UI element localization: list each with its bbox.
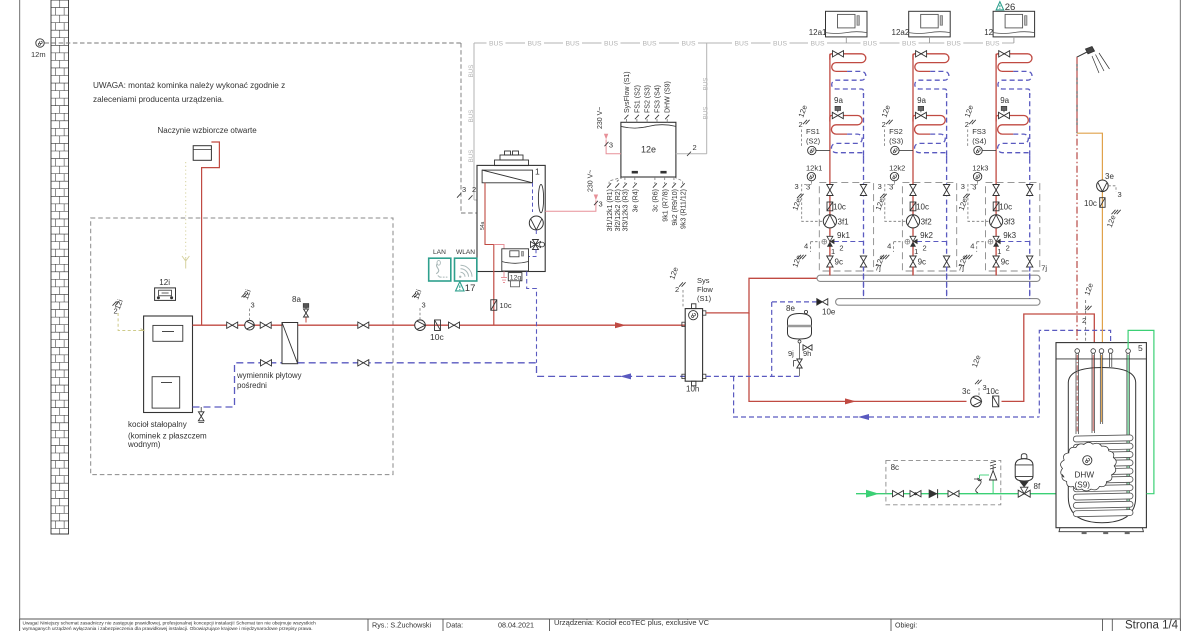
svg-text:3: 3 (609, 141, 613, 150)
cold water main (green) (856, 493, 1056, 495)
svg-text:230 V~: 230 V~ (597, 107, 604, 129)
cylinder base (1059, 528, 1143, 532)
svg-text:9a: 9a (1000, 96, 1009, 105)
svg-text:2: 2 (1006, 244, 1010, 253)
svg-text:3: 3 (251, 301, 255, 310)
plate heat exchanger (wymiennik plytowy) (282, 323, 298, 364)
svg-text:FS3: FS3 (972, 127, 986, 136)
wire 12i to boiler (pale dashed) (118, 313, 144, 330)
svg-text:9c: 9c (918, 258, 926, 267)
coil return from tank (blue) (1039, 330, 1110, 417)
svg-text:12i: 12i (159, 278, 170, 287)
svg-text:8f: 8f (1034, 482, 1041, 491)
internal pump (529, 216, 543, 230)
svg-text:BUS: BUS (528, 41, 542, 48)
circulation pipe (red dash-dot) (1076, 57, 1078, 349)
svg-text:2: 2 (675, 285, 679, 294)
mixing valve 9k3 (1000, 241, 1029, 243)
svg-text:3: 3 (961, 182, 965, 191)
pump group box (902, 182, 956, 271)
mixing valve 9k1 (834, 241, 864, 243)
svg-text:BUS: BUS (643, 41, 657, 48)
svg-text:1: 1 (831, 247, 835, 256)
svg-text:26: 26 (1005, 2, 1016, 13)
svg-text:BUS: BUS (566, 41, 580, 48)
svg-text:wodnym): wodnym) (127, 440, 161, 449)
dip tubes (1075, 353, 1077, 434)
svg-text:12k1: 12k1 (806, 164, 822, 173)
shut-off valves top (910, 185, 916, 191)
internal blue pipe (532, 183, 534, 212)
svg-text:230 V~: 230 V~ (588, 170, 595, 192)
safety group 8c (886, 460, 1001, 504)
BUS drop to ecoTEC (473, 43, 475, 200)
svg-text:Naczynie wzbiorcze otwarte: Naczynie wzbiorcze otwarte (158, 126, 258, 135)
BUS drop to control 12e (706, 43, 708, 154)
svg-text:8a: 8a (292, 295, 301, 304)
svg-text:BUS: BUS (703, 107, 710, 120)
DHW cylinder 5 (1056, 343, 1146, 528)
page frame (19, 0, 21, 619)
return from DHW tank (blue) (734, 376, 1040, 417)
svg-text:Rys.: S.Żuchowski: Rys.: S.Żuchowski (372, 621, 432, 630)
svg-text:(S1): (S1) (697, 294, 712, 303)
warning 17 (456, 282, 465, 291)
room controller 12a1 (826, 11, 868, 37)
svg-text:12: 12 (984, 28, 993, 37)
svg-text:10c: 10c (986, 387, 999, 396)
shut-off valve (227, 322, 233, 328)
wire to pump + labels 12i 3 (249, 308, 251, 320)
svg-text:SysFlow (S1): SysFlow (S1) (624, 71, 631, 113)
svg-text:FS1 (S2): FS1 (S2) (634, 85, 641, 113)
svg-text:10c: 10c (500, 301, 512, 310)
svg-text:4: 4 (804, 242, 808, 251)
svg-text:(S2): (S2) (806, 137, 821, 146)
svg-text:12k3: 12k3 (972, 164, 988, 173)
burner module (502, 249, 529, 271)
riser to manifolds (912, 267, 914, 276)
svg-text:10h: 10h (686, 385, 699, 394)
title block (19, 619, 21, 631)
internal expansion vessel (538, 184, 543, 212)
8f tee valve (1018, 490, 1024, 497)
svg-text:12a2: 12a2 (892, 28, 910, 37)
gas boiler ecoTEC (1) (477, 165, 545, 271)
shut-off valves top (993, 185, 999, 191)
svg-text:8e: 8e (786, 304, 795, 313)
radiator loop upper (913, 54, 949, 72)
svg-text:BUS: BUS (703, 78, 710, 91)
svg-text:3: 3 (795, 182, 799, 191)
svg-text:12e: 12e (641, 145, 656, 155)
svg-text:FS1: FS1 (806, 127, 820, 136)
condensate branch (pink) (494, 245, 504, 278)
radiator loop upper (996, 54, 1032, 72)
filter 10c (993, 396, 999, 407)
pump circuit solid fuel (245, 320, 255, 330)
svg-text:BUS: BUS (902, 41, 916, 48)
tank connections (1075, 349, 1080, 354)
circulation branch (orange) (1077, 133, 1102, 349)
svg-text:Data:: Data: (446, 621, 463, 630)
svg-text:3c (R6): 3c (R6) (653, 189, 660, 212)
svg-text:4: 4 (970, 242, 974, 251)
flue terminal (495, 160, 529, 166)
return valve left (261, 360, 267, 366)
sensor 12m (outdoor/flue sensor) (36, 39, 44, 47)
svg-text:9k3: 9k3 (1003, 231, 1016, 240)
supply riser red (912, 54, 914, 276)
svg-text:Sys: Sys (697, 276, 710, 285)
supply riser red (995, 54, 997, 276)
filter 10c (993, 202, 999, 211)
svg-text:5: 5 (1138, 343, 1143, 353)
open expansion vessel (193, 146, 211, 161)
wires 9k actuator (977, 241, 984, 243)
svg-text:8c: 8c (891, 463, 899, 472)
room controller 12 (993, 11, 1035, 37)
svg-text:Urządzenia: Kocioł ecoTEC plu: Urządzenia: Kocioł ecoTEC plus, exclusiv… (554, 618, 710, 627)
shower (1077, 52, 1088, 134)
svg-text:BUS: BUS (604, 41, 618, 48)
svg-text:3: 3 (462, 185, 466, 194)
return riser blue (946, 93, 948, 299)
pump group box (819, 182, 873, 271)
svg-text:12q: 12q (510, 274, 522, 281)
hydraulic separator 10h (685, 309, 702, 382)
svg-text:Obiegi:: Obiegi: (895, 623, 917, 630)
svg-text:10e: 10e (822, 308, 836, 317)
svg-text:54a: 54a (480, 221, 486, 230)
flow arrow supply (615, 322, 626, 328)
svg-text:3f1/12k1 (R1): 3f1/12k1 (R1) (607, 189, 614, 231)
wires 3e (1108, 186, 1116, 192)
svg-text:12k2: 12k2 (889, 164, 905, 173)
return riser blue (863, 93, 865, 299)
svg-text:3c: 3c (962, 387, 970, 396)
cold water to tank & up-over (green) (1128, 330, 1154, 493)
svg-text:WLAN: WLAN (456, 249, 475, 256)
svg-text:Strona 1/4: Strona 1/4 (1125, 620, 1179, 631)
svg-text:BUS: BUS (468, 150, 475, 163)
inner vessel (1068, 368, 1135, 523)
svg-text:wymiennik płytowy: wymiennik płytowy (236, 371, 302, 380)
svg-text:3f1: 3f1 (838, 218, 850, 227)
controller 12e (621, 122, 676, 177)
svg-text:2: 2 (965, 120, 969, 129)
radiator loop lower (9a mixing) (996, 116, 1028, 135)
svg-text:BUS: BUS (863, 41, 877, 48)
svg-text:3: 3 (889, 183, 893, 192)
wire 12m to ecoTEC (dashed) (45, 42, 462, 44)
radiator loop lower (9a mixing) (913, 116, 945, 135)
svg-text:3f3: 3f3 (1004, 218, 1016, 227)
svg-text:FS2 (S3): FS2 (S3) (645, 85, 652, 113)
sensor wire DHW (gray dashed) (1085, 300, 1087, 455)
svg-text:DHW (S9): DHW (S9) (665, 81, 672, 113)
svg-text:3e (R4): 3e (R4) (633, 189, 640, 212)
internal red pipe (485, 183, 494, 272)
warning 26 (996, 2, 1004, 10)
svg-text:DHW: DHW (1075, 471, 1095, 480)
mixing valve 9k2 (917, 241, 947, 243)
svg-text:08.04.2021: 08.04.2021 (498, 621, 534, 630)
svg-text:1: 1 (914, 247, 918, 256)
internal diverter valve (531, 242, 536, 248)
sensor cloud DHW (S9) (1061, 442, 1117, 491)
supply separator to manifold (706, 278, 817, 313)
svg-text:FS3 (S4): FS3 (S4) (655, 85, 662, 113)
svg-text:7j: 7j (1041, 264, 1047, 273)
shut-off valve 9c (827, 256, 833, 262)
svg-text:1: 1 (535, 167, 540, 177)
12e sensor inputs (625, 119, 627, 122)
main supply pipe red (193, 324, 686, 326)
shut-off valve 9c (910, 256, 916, 262)
svg-text:10c: 10c (999, 203, 1012, 212)
svg-text:BUS: BUS (468, 110, 475, 123)
pump 3f3 (990, 215, 1003, 228)
svg-text:3: 3 (806, 183, 810, 192)
svg-text:BUS: BUS (811, 41, 825, 48)
dashed enclosure solid-fuel system (91, 218, 393, 475)
return manifold (capsule) (836, 299, 1040, 306)
svg-text:Flow: Flow (697, 285, 713, 294)
svg-text:BUS: BUS (986, 41, 1000, 48)
supply down from ecoTEC (493, 272, 495, 326)
riser to manifolds (995, 267, 997, 276)
filter 10c (1100, 198, 1105, 208)
supply manifold (capsule) (817, 275, 1040, 281)
svg-text:9c: 9c (1001, 258, 1009, 267)
svg-text:9k3 (R11/12): 9k3 (R11/12) (681, 189, 688, 229)
svg-text:2: 2 (114, 307, 118, 316)
wires 9k actuator (811, 241, 818, 243)
filter 10c (910, 202, 916, 211)
svg-text:BUS: BUS (468, 65, 475, 78)
drain valve below return (200, 407, 202, 412)
svg-text:2: 2 (693, 143, 697, 152)
svg-text:2: 2 (839, 244, 843, 253)
wires 9k actuator (894, 241, 901, 243)
svg-text:FS2: FS2 (889, 127, 903, 136)
svg-text:2: 2 (882, 120, 886, 129)
svg-text:9k1 (R7/8): 9k1 (R7/8) (663, 189, 670, 222)
svg-text:10c: 10c (916, 203, 929, 212)
svg-text:9h: 9h (803, 349, 811, 358)
pump 3f1 (823, 215, 836, 228)
svg-text:BUS: BUS (773, 41, 787, 48)
svg-text:(S4): (S4) (972, 137, 987, 146)
pump 3f2 (906, 215, 919, 228)
radiator loop lower (9a mixing) (830, 116, 862, 135)
svg-text:10c: 10c (1084, 199, 1097, 208)
svg-text:3: 3 (878, 182, 882, 191)
svg-text:3: 3 (1118, 190, 1122, 199)
riser to manifolds (829, 267, 831, 276)
svg-text:4: 4 (887, 242, 891, 251)
svg-text:wymaganych urządzeń wyłączania: wymaganych urządzeń wyłączania i zabezpi… (23, 626, 313, 631)
svg-text:pośredni: pośredni (237, 381, 267, 390)
svg-text:BUS: BUS (735, 41, 749, 48)
svg-text:3: 3 (599, 200, 603, 209)
svg-text:3: 3 (972, 183, 976, 192)
svg-text:10c: 10c (833, 203, 846, 212)
supply to DHW loading (red) (749, 313, 967, 402)
svg-text:3f3/12k3 (R3): 3f3/12k3 (R3) (623, 189, 630, 231)
svg-text:12a1: 12a1 (809, 28, 827, 37)
svg-text:(S3): (S3) (889, 137, 904, 146)
brick chimney wall (51, 0, 69, 534)
shut-off valves top (827, 185, 833, 191)
svg-text:9k2 (R9/10): 9k2 (R9/10) (672, 189, 679, 226)
heat exchanger inside (482, 170, 532, 183)
svg-text:2: 2 (472, 185, 476, 194)
12e outputs (609, 177, 623, 184)
BUS line horizontal (474, 42, 487, 44)
svg-text:BUS: BUS (489, 41, 503, 48)
overflow signal (pale dotted) with Y end (185, 162, 187, 259)
svg-text:BUS: BUS (947, 41, 961, 48)
svg-text:kocioł stałopalny: kocioł stałopalny (128, 420, 187, 429)
room controller 12a2 (909, 11, 951, 37)
pump group box (986, 182, 1040, 271)
svg-text:zaleceniami producenta urządze: zaleceniami producenta urządzenia. (93, 95, 224, 104)
svg-text:Uwaga! Niniejszy schemat zasad: Uwaga! Niniejszy schemat zasadniczy nie … (23, 620, 317, 626)
svg-text:9j: 9j (788, 349, 794, 358)
svg-text:9c: 9c (835, 258, 843, 267)
svg-text:3e: 3e (1105, 172, 1114, 181)
svg-text:1: 1 (997, 247, 1001, 256)
safety valve (992, 480, 994, 494)
solid fuel boiler (kociol staloplany) (144, 316, 193, 413)
svg-text:2: 2 (923, 244, 927, 253)
svg-text:3f2: 3f2 (921, 218, 933, 227)
svg-text:9a: 9a (917, 96, 926, 105)
wire + labels 12i 3 at pump (419, 308, 421, 320)
return valve right of HX (358, 360, 364, 366)
svg-text:12m: 12m (31, 50, 46, 59)
shut-off valve (260, 322, 266, 328)
svg-text:2: 2 (1082, 316, 1086, 325)
svg-text:9k2: 9k2 (920, 231, 933, 240)
pipe vessel to boiler supply (red) (202, 142, 220, 325)
svg-text:UWAGA: montaż kominka należy w: UWAGA: montaż kominka należy wykonać zgo… (93, 81, 285, 90)
supply valve/pump/filter group after HX (358, 322, 364, 328)
svg-text:3: 3 (422, 301, 426, 310)
return manifold to separator (772, 301, 817, 303)
gas connection 12q (508, 273, 522, 281)
return pipe blue: boiler to HX (193, 363, 283, 407)
svg-text:3: 3 (983, 383, 987, 392)
svg-text:17: 17 (465, 283, 476, 294)
svg-text:3f2/12k2 (R2): 3f2/12k2 (R2) (615, 189, 622, 231)
svg-text:(S9): (S9) (1075, 481, 1091, 490)
coil heat exchanger (1073, 435, 1133, 442)
supply up-over to tank (red) (1002, 314, 1095, 401)
return down from ecoTEC (527, 272, 537, 363)
vessel connection valves 9h 9j (799, 339, 801, 376)
shut-off valve 9c (993, 256, 999, 262)
svg-text:LAN: LAN (433, 249, 446, 256)
return pipe blue: HX to separator (298, 363, 686, 377)
radiator loop upper (830, 54, 866, 72)
valve 10e (partly filled) (817, 299, 823, 305)
svg-text:BUS: BUS (682, 41, 696, 48)
wire 12e to BUS, label 2 (676, 153, 707, 155)
return riser blue (1029, 93, 1031, 299)
Sys Flow (S1) sensor (689, 311, 698, 320)
svg-text:9k1: 9k1 (837, 231, 850, 240)
wire to 3c (978, 388, 980, 396)
svg-text:9a: 9a (834, 96, 843, 105)
svg-text:2: 2 (799, 120, 803, 129)
svg-text:10c: 10c (430, 332, 444, 342)
filter 10c on ecoTEC supply (491, 300, 497, 311)
filter 10c (827, 202, 833, 211)
supply riser red (829, 54, 831, 276)
